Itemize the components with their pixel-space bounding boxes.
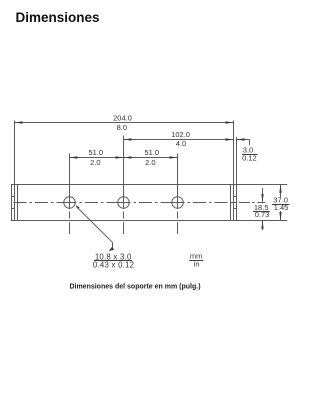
horizontal centerline (14, 202, 266, 204)
dim 37 line lower segment (280, 211, 282, 220)
svg-text:Dimensiones: Dimensiones (16, 10, 100, 25)
dim 102 left arrow (124, 138, 132, 140)
hole 3 circle (172, 197, 184, 209)
bracket left end inner line 1 (14, 184, 16, 221)
hole 2 circle (118, 197, 130, 209)
dim 204 right extension line (233, 121, 235, 185)
dim 18.5 lower arrow stem (262, 221, 264, 231)
hole 1 circle (64, 197, 76, 209)
dim 51b right arrow (170, 156, 178, 158)
right end slot tick lower (233, 208, 237, 210)
dim 37 line upper segment (280, 185, 282, 198)
fraction bar mm/in (189, 260, 203, 262)
svg-text:2.0: 2.0 (145, 158, 155, 167)
dim 3.0 right extension line (236, 137, 238, 184)
dim 204 left arrow (15, 121, 23, 123)
svg-text:2.0: 2.0 (90, 158, 100, 167)
left end slot tick upper (11, 196, 15, 198)
leader arrow at hole 1 (76, 205, 80, 209)
bracket left end outer line (11, 184, 13, 221)
bracket right end outer line (236, 184, 238, 221)
svg-text:51.0: 51.0 (88, 148, 103, 157)
svg-text:Dimensiones del soporte en mm: Dimensiones del soporte en mm (pulg.) (69, 284, 200, 291)
svg-text:0.43 x 0.12: 0.43 x 0.12 (93, 261, 134, 270)
fraction bar 37.0/1.45 (272, 204, 289, 206)
fraction bar 3.0/0.12 (242, 154, 258, 156)
dim 51b left arrow (124, 156, 132, 158)
dim 51a left arrow (70, 156, 78, 158)
bracket top edge (with right extension for 37.0 dim) (11, 184, 287, 186)
bracket right end inner line 1 (233, 184, 235, 221)
leader end arrow (109, 247, 115, 251)
dim 51 line span (70, 157, 178, 159)
dim 204 right arrow (226, 121, 234, 123)
dim 204 line (15, 122, 234, 124)
bracket bottom edge (with right extension) (11, 220, 287, 222)
dim 18.5 upper arrow stem (262, 188, 264, 202)
svg-text:4.0: 4.0 (176, 139, 186, 148)
leader diagonal line (76, 206, 112, 242)
fraction bar 18.5/0.73 (253, 211, 270, 213)
right end slot tick upper (233, 196, 237, 198)
dim 3.0 outside arrow (237, 138, 245, 140)
hole 3 vertical centerline (177, 154, 179, 210)
dim 37 top arrow (279, 185, 281, 193)
dim 102 right arrow (226, 138, 234, 140)
svg-text:51.0: 51.0 (144, 148, 159, 157)
dim 37 bottom arrow (279, 212, 281, 220)
dim 18.5 up arrow (261, 221, 263, 229)
hole 2 vertical centerline (123, 136, 125, 210)
leader vertical end (112, 242, 114, 248)
dim 51a right arrow (116, 156, 124, 158)
dim 18.5 down arrow (261, 194, 263, 202)
svg-text:204.0: 204.0 (113, 114, 132, 123)
bracket right end inner line 2 (230, 184, 232, 221)
dim 204 left extension line (14, 121, 16, 185)
hole 1 vertical centerline (69, 154, 71, 210)
svg-text:8.0: 8.0 (117, 123, 127, 132)
bracket left end inner line 2 (17, 184, 19, 221)
left end slot tick lower (11, 208, 15, 210)
dim 102 line (124, 139, 234, 141)
dim 3.0 outside tail (237, 139, 250, 141)
fraction bar callout (94, 260, 132, 262)
